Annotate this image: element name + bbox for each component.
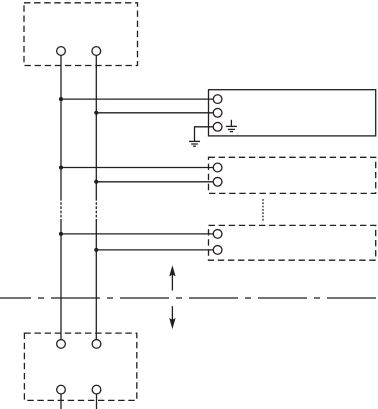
wire from P2 terminal 3 downward [60,394,62,409]
wire: bus A to U2 pin 1 [61,167,213,169]
module U3 (lower right dashed box) [209,225,376,260]
module U1 (solid box) [209,90,376,136]
pin 1 of U3 [213,230,222,239]
junction on bus B at U1 wire [94,111,98,115]
pin 2 of U1 [213,108,222,117]
pin 1 of U1 [213,95,222,104]
arrow up [169,265,175,290]
junction on bus A at U2 wire [59,165,63,169]
chassis ground inside U1 [226,120,237,132]
wire bus B (right vertical) [95,55,97,339]
wire: bus A to U1 pin 1 [61,98,213,100]
center chain line [0,297,378,299]
pin 3 of U1 [213,122,222,131]
wire: bus B to U2 pin 2 [96,181,213,183]
wire: bus B to U1 pin 2 [96,112,213,114]
pin 2 of U3 [213,246,222,255]
junction on bus A at U1 wire [59,97,63,101]
earth ground [189,141,200,146]
junction on bus B at U3 wire [94,248,98,252]
pin 2 of U2 [213,177,222,186]
terminal 4 of P2 [92,385,101,394]
terminal 1 of P2 [57,340,66,349]
pin 1 of U2 [213,163,222,172]
connector P1 (top-left dashed box) [24,3,138,66]
arrow down [169,306,175,329]
wire: U1 pin 3 to earth ground [195,127,214,142]
junction on bus B at U2 wire [94,180,98,184]
terminal 3 of P2 [57,385,66,394]
terminal 1 of P1 [57,47,66,56]
module U2 (upper right dashed box) [209,157,376,193]
wire from P2 terminal 4 downward [96,394,98,409]
wire: bus B to U3 pin 2 [96,249,213,251]
terminal 2 of P2 [92,340,101,349]
wire: bus A to U3 pin 1 [61,233,213,235]
wire bus A (left vertical) [60,55,62,339]
terminal 2 of P1 [92,47,101,56]
connector P2 (bottom dashed box) [24,333,136,400]
junction on bus A at U3 wire [59,232,63,236]
dotted link between U2 and U3 [262,199,264,221]
